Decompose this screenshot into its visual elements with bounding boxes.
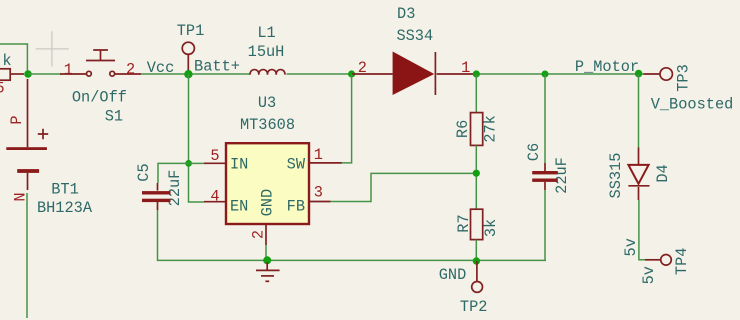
test point TP1 — [177, 22, 205, 71]
svg-text:GND: GND — [258, 189, 276, 217]
svg-text:V_Boosted: V_Boosted — [651, 96, 734, 114]
svg-text:D3: D3 — [397, 5, 415, 23]
node SW junction — [348, 70, 355, 77]
svg-text:C5: C5 — [135, 163, 153, 181]
capacitor C5 — [135, 163, 184, 210]
svg-text:5: 5 — [210, 147, 219, 165]
wire — [473, 73, 644, 75]
diode D3 — [352, 5, 473, 95]
resistor R7 — [455, 209, 500, 239]
wire D4 to TP4 — [639, 200, 645, 260]
svg-text:22uF: 22uF — [553, 157, 571, 194]
node IN junction — [185, 160, 192, 167]
svg-text:3: 3 — [314, 184, 323, 202]
svg-text:Batt+: Batt+ — [194, 58, 240, 76]
node FB junction — [473, 170, 480, 177]
inductor L1 — [248, 24, 285, 75]
wire C6 riser — [544, 74, 546, 163]
svg-text:TP2: TP2 — [460, 298, 488, 316]
node Batt junction — [24, 70, 32, 78]
svg-text:TP3: TP3 — [675, 64, 693, 92]
diode D4 — [607, 148, 672, 201]
svg-text:R6: R6 — [454, 120, 472, 138]
wire D3 to R6 — [475, 74, 477, 113]
svg-text:5v: 5v — [622, 238, 640, 256]
wire battery down — [26, 193, 28, 318]
wire — [0, 44, 27, 74]
node P_Motor junction — [635, 70, 643, 78]
switch S1 — [60, 50, 141, 126]
node rail junction — [473, 257, 480, 264]
wire C6 down — [544, 190, 546, 260]
wire FB net — [331, 173, 477, 201]
wire — [287, 73, 353, 75]
ground — [256, 262, 280, 281]
svg-text:TP1: TP1 — [177, 22, 205, 40]
svg-text:S1: S1 — [105, 108, 123, 126]
svg-text:C6: C6 — [525, 143, 543, 161]
svg-text:U3: U3 — [258, 94, 276, 112]
wire to C5 — [158, 163, 189, 183]
svg-text:k: k — [2, 52, 11, 70]
wire C5 down and GND rail — [158, 210, 547, 260]
svg-text:P: P — [8, 115, 26, 124]
svg-text:5v: 5v — [640, 266, 658, 284]
node GND junction — [263, 256, 271, 264]
svg-text:TP4: TP4 — [673, 248, 691, 276]
wire pin2 to rail — [265, 245, 267, 260]
svg-text:1: 1 — [64, 61, 73, 79]
svg-text:15uH: 15uH — [248, 43, 285, 61]
svg-text:BT1: BT1 — [51, 181, 79, 199]
test point TP3 — [644, 64, 693, 92]
wire SW riser — [342, 74, 352, 163]
wire IN stub — [189, 162, 205, 164]
svg-text:SW: SW — [287, 155, 306, 173]
node Batt+ junction — [184, 70, 192, 78]
svg-text:2: 2 — [126, 61, 135, 79]
test point TP2 — [460, 261, 488, 316]
connector J1 (jack, cut off at edge) — [0, 52, 24, 98]
svg-text:IN: IN — [230, 155, 248, 173]
svg-text:GND: GND — [439, 266, 467, 284]
wire — [141, 73, 250, 75]
svg-text:SS315: SS315 — [607, 153, 625, 199]
svg-text:MT3608: MT3608 — [240, 116, 295, 134]
svg-text:FB: FB — [287, 197, 305, 215]
svg-text:L1: L1 — [257, 24, 275, 42]
crosshair cursor — [36, 31, 69, 66]
capacitor C6 — [525, 143, 571, 194]
wire D4 riser — [638, 74, 640, 148]
svg-text:D4: D4 — [654, 164, 672, 182]
node D3 cathode junction — [473, 70, 480, 77]
svg-text:BH123A: BH123A — [37, 199, 93, 217]
wire R6 to R7 — [475, 146, 477, 210]
svg-text:1: 1 — [314, 146, 323, 164]
svg-text:On/Off: On/Off — [72, 89, 127, 107]
svg-text:P_Motor: P_Motor — [575, 58, 639, 76]
wire R7 to rail — [475, 240, 477, 261]
svg-text:27k: 27k — [481, 115, 499, 143]
svg-text:1: 1 — [461, 59, 470, 77]
wire — [28, 73, 61, 75]
svg-text:4: 4 — [210, 188, 219, 206]
wire Batt+ riser to IN/EN — [189, 74, 205, 202]
svg-text:5: 5 — [0, 80, 5, 98]
resistor R6 — [454, 113, 500, 146]
svg-text:SS34: SS34 — [396, 27, 433, 45]
battery BT1 — [6, 79, 93, 217]
node C6 junction — [542, 71, 549, 78]
test point TP4 — [645, 248, 691, 276]
svg-text:2: 2 — [249, 230, 267, 239]
svg-text:3k: 3k — [482, 219, 500, 237]
svg-text:EN: EN — [230, 197, 248, 215]
IC U3 MT3608 — [204, 94, 342, 245]
